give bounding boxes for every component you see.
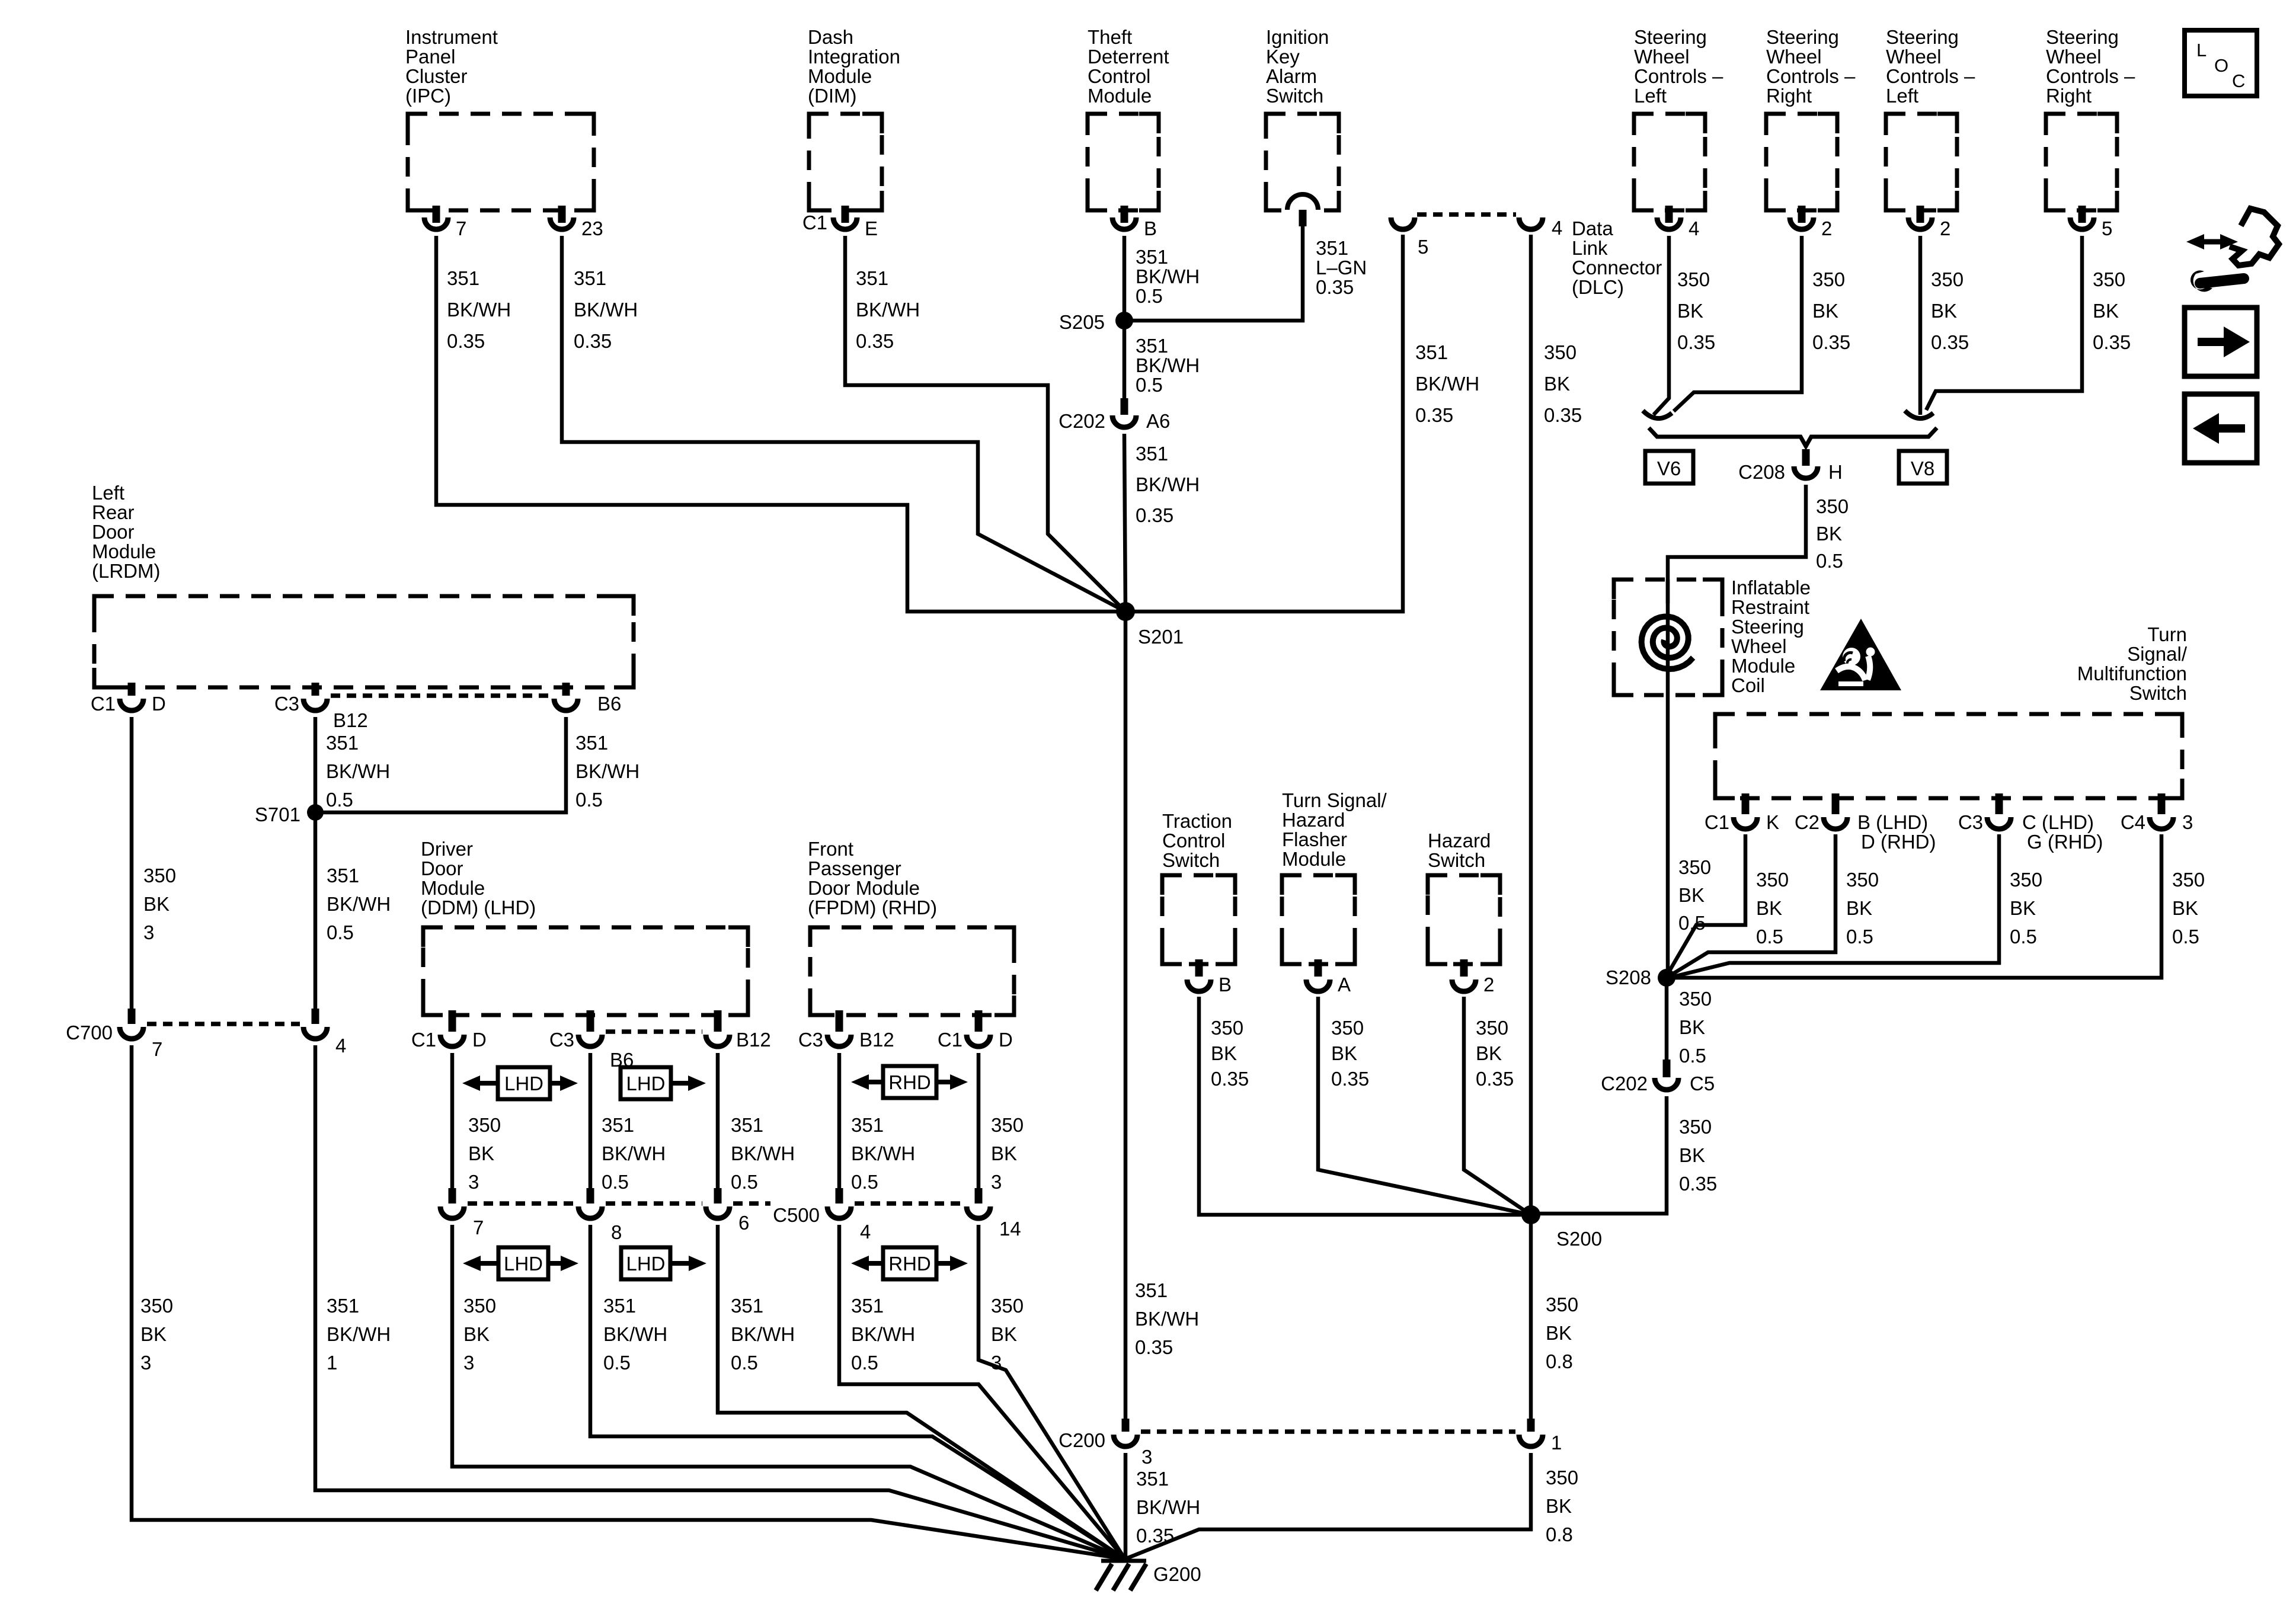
svg-text:Theft: Theft <box>1088 26 1132 48</box>
wire 350 BK 0.35 from C202 C5 to S200 <box>1531 1096 1667 1214</box>
svg-text:L: L <box>2196 40 2207 60</box>
svg-text:350: 350 <box>1816 495 1849 517</box>
svg-text:350: 350 <box>1679 988 1712 1010</box>
svg-text:350: 350 <box>1678 856 1711 878</box>
svg-text:BK/WH: BK/WH <box>603 1323 667 1345</box>
legend adjust icon (double arrow, outline, wrench) <box>2186 209 2279 292</box>
svg-text:BK/WH: BK/WH <box>1136 354 1200 376</box>
svg-text:0.5: 0.5 <box>851 1352 878 1374</box>
svg-text:Dash: Dash <box>808 26 853 48</box>
svg-text:1: 1 <box>1551 1432 1562 1454</box>
svg-text:2: 2 <box>1821 217 1832 239</box>
svg-text:BK/WH: BK/WH <box>856 299 920 321</box>
svg-text:L–GN: L–GN <box>1316 257 1367 279</box>
svg-text:5: 5 <box>2102 217 2112 239</box>
value label for wire 351 BK/WH 0.5 from C500 6 to G200 <box>731 1295 795 1374</box>
svg-text:C (LHD): C (LHD) <box>2022 811 2094 833</box>
value label for wire 351 BK/WH 0.5 from DDM B6 to C500 pin 8 <box>602 1114 666 1193</box>
svg-text:B12: B12 <box>736 1029 771 1051</box>
svg-text:S208: S208 <box>1606 966 1651 988</box>
svg-text:350: 350 <box>991 1295 1024 1317</box>
connector C202 pin C5 <box>1601 1060 1715 1094</box>
connector C500 dashed link 8-6 <box>606 1201 702 1206</box>
value label for wire 351 BK/WH 0.5 from LRDM C3-B12 to S701 <box>326 732 390 811</box>
value label for wire 350 BK 3 from C500 14 to G200 <box>991 1295 1024 1374</box>
value label for wire 351 BK/WH 0.35 from IPC pin 7 to S201 <box>447 267 511 352</box>
svg-text:Data: Data <box>1572 217 1613 239</box>
module Driver Door Module (DDM)(LHD) label <box>421 838 536 918</box>
module Inflatable Restraint Steering Wheel Module Coil label <box>1731 577 1811 696</box>
svg-text:BK/WH: BK/WH <box>326 760 390 782</box>
wire 350 BK 0.35 from SWC#1 pin 4 to brace hook <box>1654 236 1669 415</box>
splice S205 <box>1059 311 1133 333</box>
svg-text:Cluster: Cluster <box>405 65 468 87</box>
svg-text:23: 23 <box>581 217 603 239</box>
wire 351 BK/WH 0.5 from FPDM B12 to C500 pin 4 <box>837 1053 842 1188</box>
svg-text:B: B <box>1219 974 1232 996</box>
svg-text:LHD: LHD <box>626 1253 665 1275</box>
legend right-arrow box <box>2185 308 2257 376</box>
svg-text:Turn Signal/: Turn Signal/ <box>1282 789 1387 811</box>
svg-text:BK/WH: BK/WH <box>574 299 638 321</box>
svg-text:350: 350 <box>1812 268 1845 290</box>
value label for wire 351 BK/WH 0.35 from C202 A6 to S201 <box>1136 443 1200 526</box>
svg-text:C3: C3 <box>1958 811 1983 833</box>
connector DDM C3 pin B6 <box>549 1010 634 1071</box>
svg-text:0.35: 0.35 <box>574 330 612 352</box>
svg-text:0.5: 0.5 <box>2010 926 2037 948</box>
svg-text:BK: BK <box>1679 1016 1705 1038</box>
svg-text:4: 4 <box>1689 217 1699 239</box>
svg-text:BK: BK <box>1678 884 1705 906</box>
svg-text:D: D <box>472 1029 487 1051</box>
connector C200 dashed link <box>1141 1429 1515 1434</box>
svg-text:Wheel: Wheel <box>1886 46 1942 68</box>
svg-text:Integration: Integration <box>808 46 900 68</box>
connector DDM C1 pin D <box>411 1010 487 1051</box>
svg-text:BK/WH: BK/WH <box>731 1142 795 1164</box>
svg-text:7: 7 <box>473 1217 484 1238</box>
svg-text:Steering: Steering <box>1634 26 1707 48</box>
svg-text:Wheel: Wheel <box>1766 46 1822 68</box>
svg-text:351: 351 <box>1136 1468 1169 1490</box>
svg-text:Link: Link <box>1572 237 1608 259</box>
svg-text:Switch: Switch <box>1266 85 1323 107</box>
wire 351 BK/WH 0.5 from S205 to C202 A6 <box>1123 321 1127 399</box>
svg-text:C1: C1 <box>91 693 116 715</box>
svg-text:BK/WH: BK/WH <box>851 1142 915 1164</box>
svg-text:D: D <box>152 693 166 715</box>
value label for wire 350 BK 0.8 S200 to C200-1 <box>1546 1294 1578 1372</box>
svg-text:B12: B12 <box>859 1029 894 1051</box>
svg-text:V8: V8 <box>1911 457 1934 479</box>
connector C200 pin 3 <box>1059 1419 1152 1468</box>
wire 350 BK 0.35 from SWC#3 pin 2 to brace hook <box>1918 236 1923 415</box>
svg-text:BK: BK <box>2093 300 2119 322</box>
legend LOC box <box>2185 30 2257 96</box>
connector DDM C3 dashed link <box>606 1029 702 1034</box>
svg-text:Key: Key <box>1266 46 1300 68</box>
svg-text:350: 350 <box>1679 1116 1712 1138</box>
connector C500 dashed link 4-14 <box>855 1201 963 1206</box>
connector Traction Control Switch pin B <box>1187 959 1232 996</box>
svg-text:4: 4 <box>1552 217 1562 239</box>
svg-text:3: 3 <box>143 921 154 943</box>
splice S208 <box>1606 966 1675 988</box>
variant tag RHD below C500 4 <box>851 1247 968 1279</box>
module FPDM box <box>810 927 1014 1015</box>
svg-text:351: 351 <box>1415 341 1448 363</box>
svg-text:C200: C200 <box>1059 1429 1105 1451</box>
svg-text:Right: Right <box>1766 85 1812 107</box>
wire 351 BK/WH 0.35 from DIM C1-E to S201 <box>845 236 1125 612</box>
svg-text:350: 350 <box>2172 869 2205 891</box>
svg-text:351: 351 <box>603 1295 636 1317</box>
connector Flasher pin A <box>1306 959 1351 996</box>
module Ignition Key Alarm Switch box <box>1266 114 1339 210</box>
svg-text:0.35: 0.35 <box>1331 1068 1369 1090</box>
connector DLC pin 5 <box>1391 217 1428 258</box>
svg-text:B6: B6 <box>597 693 621 715</box>
ground G200 symbol <box>1096 1561 1201 1590</box>
svg-text:0.35: 0.35 <box>1415 404 1453 426</box>
connector LRDM C1 pin D <box>91 683 166 715</box>
svg-text:Control: Control <box>1162 830 1225 852</box>
svg-text:LHD: LHD <box>626 1073 665 1094</box>
value label for wire 350 BK 0.35 from Traction B to S200 <box>1211 1017 1249 1090</box>
module Ignition Key Alarm Switch label <box>1266 26 1329 107</box>
wire 350 BK 0.35 from Traction B to S200 <box>1199 997 1531 1215</box>
svg-text:Module: Module <box>421 877 485 899</box>
value label for wire 350 BK 0.35 from SWC#3 pin 2 to brace hook <box>1931 268 1969 353</box>
svg-text:Panel: Panel <box>405 46 455 68</box>
svg-text:0.35: 0.35 <box>1316 276 1354 298</box>
svg-text:BK: BK <box>1846 897 1872 919</box>
value label for wire 350 BK 0.5 from C208 H to coil <box>1816 495 1849 572</box>
svg-text:G (RHD): G (RHD) <box>2027 831 2103 853</box>
value label for wire 350 BK 0.35 from DLC 4 to S200 <box>1544 341 1582 426</box>
module Steering Wheel Controls - Left #3 label <box>1886 26 1975 107</box>
module Front Passenger Door Module (FPDM)(RHD) label <box>808 838 937 918</box>
svg-text:BK/WH: BK/WH <box>575 760 639 782</box>
svg-text:351: 351 <box>1316 237 1348 259</box>
svg-text:S200: S200 <box>1556 1228 1602 1250</box>
svg-text:3: 3 <box>2182 811 2193 833</box>
option tag V8 <box>1899 451 1947 484</box>
svg-text:Multifunction: Multifunction <box>2077 662 2187 684</box>
svg-text:4: 4 <box>860 1221 871 1243</box>
value label for wire 350 BK 0.35 from SWC#1 pin 4 to brace hook <box>1677 268 1715 353</box>
svg-text:0.5: 0.5 <box>1679 1045 1706 1067</box>
wire 351 BK/WH 0.35 from S201 to C200 pin 3 <box>1124 612 1128 1421</box>
value label for wire 351 BK/WH 0.5 from LRDM C3-B6 to S701 <box>575 732 639 811</box>
variant tag LHD below C500 8 <box>621 1247 706 1279</box>
svg-text:(LRDM): (LRDM) <box>92 560 160 582</box>
svg-text:0.8: 0.8 <box>1546 1523 1573 1545</box>
svg-text:0.35: 0.35 <box>1812 331 1850 353</box>
connector C500 pin 4 <box>827 1188 871 1243</box>
module Hazard Switch box <box>1428 875 1500 964</box>
svg-text:(DIM): (DIM) <box>808 85 856 107</box>
value label for wire 350 BK 0.5 from S208 to C202 C5 <box>1679 988 1712 1067</box>
svg-text:(IPC): (IPC) <box>405 85 451 107</box>
svg-text:BK/WH: BK/WH <box>851 1323 915 1345</box>
svg-text:350: 350 <box>1846 869 1879 891</box>
value label for wire 351 BK/WH 0.35 from DIM C1-E to S201 <box>856 267 920 352</box>
svg-text:Steering: Steering <box>2046 26 2119 48</box>
svg-text:S701: S701 <box>255 804 300 825</box>
svg-text:350: 350 <box>1331 1017 1364 1039</box>
value label for wire 350 BK 0.5 from C4 3 to S208 <box>2172 869 2205 948</box>
svg-text:A6: A6 <box>1146 410 1170 432</box>
value label for wire 351 BK/WH 0.5 from S205 to C202 A6 <box>1136 335 1200 396</box>
svg-text:350: 350 <box>468 1114 501 1136</box>
svg-text:Door: Door <box>421 857 463 879</box>
connector C700 pin 4 <box>303 1009 346 1057</box>
wire through coil to S208 <box>1666 580 1670 978</box>
svg-text:BK/WH: BK/WH <box>1415 373 1479 395</box>
svg-text:K: K <box>1766 811 1779 833</box>
svg-text:351: 351 <box>731 1295 763 1317</box>
module Turn Signal/Hazard Flasher Module label <box>1282 789 1387 870</box>
module Steering Wheel Controls #3 box <box>1886 114 1957 210</box>
svg-text:0.5: 0.5 <box>1136 285 1163 307</box>
module Dash Integration Module (DIM) label <box>808 26 900 107</box>
svg-text:Alarm: Alarm <box>1266 65 1317 87</box>
svg-text:0.5: 0.5 <box>851 1171 878 1193</box>
svg-text:BK/WH: BK/WH <box>1135 1308 1199 1330</box>
svg-text:350: 350 <box>1544 341 1576 363</box>
brace joining V6/V8 options to C208 <box>1649 428 1937 446</box>
wire 351 BK/WH 0.5 from C500 8 to G200 <box>590 1225 1125 1559</box>
svg-text:0.5: 0.5 <box>2172 926 2199 948</box>
module Turn Signal/Multifunction Switch box <box>1715 714 2182 798</box>
svg-text:Driver: Driver <box>421 838 473 860</box>
svg-text:RHD: RHD <box>888 1071 931 1093</box>
svg-text:BK: BK <box>2010 897 2036 919</box>
svg-text:BK: BK <box>1812 300 1838 322</box>
svg-text:BK: BK <box>143 893 170 915</box>
svg-text:Hazard: Hazard <box>1428 830 1491 852</box>
connector C500 pin 14 <box>967 1188 1021 1240</box>
connector C208 pin H <box>1738 449 1843 483</box>
svg-text:C1: C1 <box>411 1029 436 1051</box>
value label for wire 351 BK/WH 0.35 from C200 3 to G200 <box>1136 1468 1200 1547</box>
splice S701 <box>255 804 324 825</box>
wire 350 BK 0.5 from C4 3 to S208 <box>1667 834 2161 978</box>
module Steering Wheel Controls #1 box <box>1634 114 1705 210</box>
svg-text:Signal/: Signal/ <box>2127 643 2188 665</box>
svg-text:4: 4 <box>335 1035 346 1057</box>
svg-text:BK: BK <box>991 1323 1017 1345</box>
svg-text:Left: Left <box>92 482 124 504</box>
svg-text:Connector: Connector <box>1572 257 1662 279</box>
connector Steering Wheel Controls #4 pin 5 <box>2070 206 2112 239</box>
svg-text:BK/WH: BK/WH <box>1136 473 1200 495</box>
svg-text:3: 3 <box>140 1352 151 1374</box>
svg-text:0.5: 0.5 <box>1756 926 1783 948</box>
svg-text:2: 2 <box>1483 974 1494 996</box>
svg-text:S201: S201 <box>1138 626 1184 648</box>
svg-text:Turn: Turn <box>2147 623 2187 645</box>
svg-text:350: 350 <box>1546 1294 1578 1315</box>
svg-text:B12: B12 <box>333 709 368 731</box>
svg-text:350: 350 <box>1677 268 1710 290</box>
svg-text:0.5: 0.5 <box>326 789 353 811</box>
svg-text:Module: Module <box>1731 655 1795 677</box>
svg-text:LHD: LHD <box>504 1073 543 1094</box>
svg-text:A: A <box>1338 974 1351 996</box>
svg-text:Ignition: Ignition <box>1266 26 1329 48</box>
svg-text:2: 2 <box>1940 217 1950 239</box>
module IPC box <box>408 114 594 210</box>
connector C500 pin 7 <box>440 1188 484 1238</box>
value label for wire 351 BK/WH 0.5 from C500 8 to G200 <box>603 1295 667 1374</box>
svg-text:351: 351 <box>1135 1279 1168 1301</box>
connector C500 pin 8 <box>578 1188 622 1243</box>
value label for wire 351 BK/WH 1 from C700 4 to G200 <box>327 1295 391 1374</box>
svg-text:0.35: 0.35 <box>1677 331 1715 353</box>
svg-text:350: 350 <box>1476 1017 1508 1039</box>
svg-text:0.35: 0.35 <box>1679 1173 1717 1195</box>
value label for wire 350 BK 3 from DDM C1-D to C500 pin 7 <box>468 1114 501 1193</box>
svg-text:3: 3 <box>991 1171 1002 1193</box>
svg-text:Switch: Switch <box>2129 682 2187 704</box>
value label for wire 351 BK/WH 0.5 from FPDM B12 to C500 pin 4 <box>851 1114 915 1193</box>
wire 350 BK 0.5 from C3 C to S208 <box>1669 834 1999 978</box>
svg-text:351: 351 <box>851 1114 884 1136</box>
svg-text:Steering: Steering <box>1731 616 1804 638</box>
value label for wire 351 BK/WH 0.5 from S701 to C700 pin 4 <box>327 865 391 943</box>
value label for wire 350 BK 3 from FPDM C1-D to C500 pin 14 <box>991 1114 1024 1193</box>
svg-text:Passenger: Passenger <box>808 857 901 879</box>
svg-text:0.5: 0.5 <box>731 1171 758 1193</box>
svg-text:351: 351 <box>327 1295 359 1317</box>
svg-text:351: 351 <box>1136 443 1168 465</box>
value label for wire 350 BK 3 from LRDM C1-D to C700 pin 7 <box>143 865 176 943</box>
svg-text:Wheel: Wheel <box>1731 635 1787 657</box>
svg-text:1: 1 <box>327 1352 337 1374</box>
svg-text:0.8: 0.8 <box>1546 1350 1573 1372</box>
svg-text:0.5: 0.5 <box>731 1352 758 1374</box>
svg-text:0.35: 0.35 <box>1211 1068 1249 1090</box>
svg-text:351: 351 <box>602 1114 634 1136</box>
connector IPC pin 23 <box>550 206 603 239</box>
svg-text:RHD: RHD <box>888 1253 931 1275</box>
svg-text:3: 3 <box>463 1352 474 1374</box>
module coil box <box>1614 580 1722 695</box>
svg-text:C: C <box>2232 71 2245 91</box>
connector FPDM C1 pin D <box>938 1010 1013 1051</box>
svg-text:G200: G200 <box>1153 1563 1201 1585</box>
connector Multifunction C2 pin B(LHD)/D(RHD) <box>1795 793 1936 853</box>
wire 351 BK/WH 0.5 from LRDM C3-B12 to S701 <box>314 717 318 812</box>
value label for wire 350 BK 0.35 from Hazard 2 to S200 <box>1476 1017 1514 1090</box>
wire 350 BK 3 from DDM C1-D to C500 pin 7 <box>450 1053 455 1188</box>
legend left-arrow box <box>2185 394 2257 463</box>
svg-text:Module: Module <box>808 65 872 87</box>
svg-text:6: 6 <box>738 1212 749 1234</box>
svg-text:0.35: 0.35 <box>1931 331 1969 353</box>
connector DDM C3 pin B12 <box>706 1010 771 1051</box>
svg-text:Door Module: Door Module <box>808 877 920 899</box>
module Left Rear Door Module (LRDM) label <box>92 482 160 582</box>
variant tag LHD between DDM C3-B6 and B12 <box>621 1067 706 1099</box>
splice S200 <box>1521 1205 1602 1250</box>
svg-text:C4: C4 <box>2121 811 2145 833</box>
svg-text:BK/WH: BK/WH <box>731 1323 795 1345</box>
svg-text:0.35: 0.35 <box>447 330 485 352</box>
svg-text:(FPDM) (RHD): (FPDM) (RHD) <box>808 897 937 918</box>
wire 350 BK 0.5 from C2 B to S208 <box>1668 834 1835 977</box>
svg-text:351: 351 <box>574 267 606 289</box>
coil spiral symbol <box>1642 617 1693 670</box>
svg-text:Module: Module <box>1282 848 1346 870</box>
svg-text:Instrument: Instrument <box>405 26 498 48</box>
value label for wire 350 BK 0.5 from C1 K to S208 <box>1756 869 1789 948</box>
connector Multifunction C1 pin K <box>1705 793 1779 833</box>
value label for wire 351 BK/WH 0.5 from DDM B12 to C500 pin 6 <box>731 1114 795 1193</box>
svg-text:350: 350 <box>1931 268 1964 290</box>
svg-text:BK: BK <box>140 1323 167 1345</box>
svg-text:Flasher: Flasher <box>1282 828 1347 850</box>
wire 350 BK 3 from C500 14 to G200 <box>978 1225 1125 1559</box>
svg-text:C202: C202 <box>1601 1073 1648 1094</box>
wire 351 BK/WH 0.5 from DDM B6 to C500 pin 8 <box>589 1053 593 1188</box>
svg-text:Controls –: Controls – <box>1886 65 1975 87</box>
svg-text:7: 7 <box>456 217 466 239</box>
svg-text:14: 14 <box>999 1218 1021 1240</box>
svg-text:BK: BK <box>1331 1042 1357 1064</box>
svg-text:BK: BK <box>468 1142 494 1164</box>
svg-text:3: 3 <box>1141 1446 1152 1468</box>
svg-text:BK: BK <box>1931 300 1957 322</box>
svg-text:BK: BK <box>991 1142 1017 1164</box>
svg-text:C1: C1 <box>938 1029 962 1051</box>
connector C202 pin A6 <box>1059 398 1170 432</box>
value label for wire 350 BK 0.5 from C2 B to S208 <box>1846 869 1879 948</box>
connector C500 dashed link 6-C500label <box>733 1201 770 1206</box>
svg-text:8: 8 <box>611 1221 622 1243</box>
svg-text:350: 350 <box>1546 1467 1578 1489</box>
connector C200 pin 1 <box>1519 1419 1562 1454</box>
svg-text:BK/WH: BK/WH <box>602 1142 666 1164</box>
svg-text:0.35: 0.35 <box>1136 504 1173 526</box>
svg-text:351: 351 <box>1136 335 1168 357</box>
svg-text:C700: C700 <box>66 1022 113 1044</box>
svg-text:350: 350 <box>2093 268 2125 290</box>
svg-text:351: 351 <box>575 732 608 754</box>
variant tag LHD below C500 7 <box>463 1247 578 1279</box>
svg-text:0.35: 0.35 <box>1544 404 1582 426</box>
value label for wire 350 BK 0.8 from C200 1 to G200 <box>1546 1467 1578 1545</box>
svg-text:B (LHD): B (LHD) <box>1857 811 1928 833</box>
svg-text:351: 351 <box>856 267 888 289</box>
value label for wire 351 L-GN 0.35 from Ignition Key Alarm Switch to S205 <box>1316 237 1367 298</box>
svg-text:Left: Left <box>1886 85 1918 107</box>
svg-text:0.5: 0.5 <box>327 921 354 943</box>
svg-text:BK: BK <box>1816 523 1842 545</box>
variant tag LHD between DDM C1 and C3 <box>462 1067 578 1099</box>
wire 350 BK 0.35 from Hazard 2 to S200 <box>1464 997 1531 1215</box>
value label for wire 351 BK/WH 0.35 from DLC 5 to S201 <box>1415 341 1479 426</box>
connector DLC dashed link <box>1417 212 1516 217</box>
svg-text:BK: BK <box>463 1323 490 1345</box>
module Hazard Switch label <box>1428 830 1491 871</box>
svg-text:C1: C1 <box>802 212 827 233</box>
connector C700 pin 7 <box>66 1009 162 1060</box>
wire 351 BK/WH 0.5 from C500 4 to G200 <box>839 1225 1125 1559</box>
